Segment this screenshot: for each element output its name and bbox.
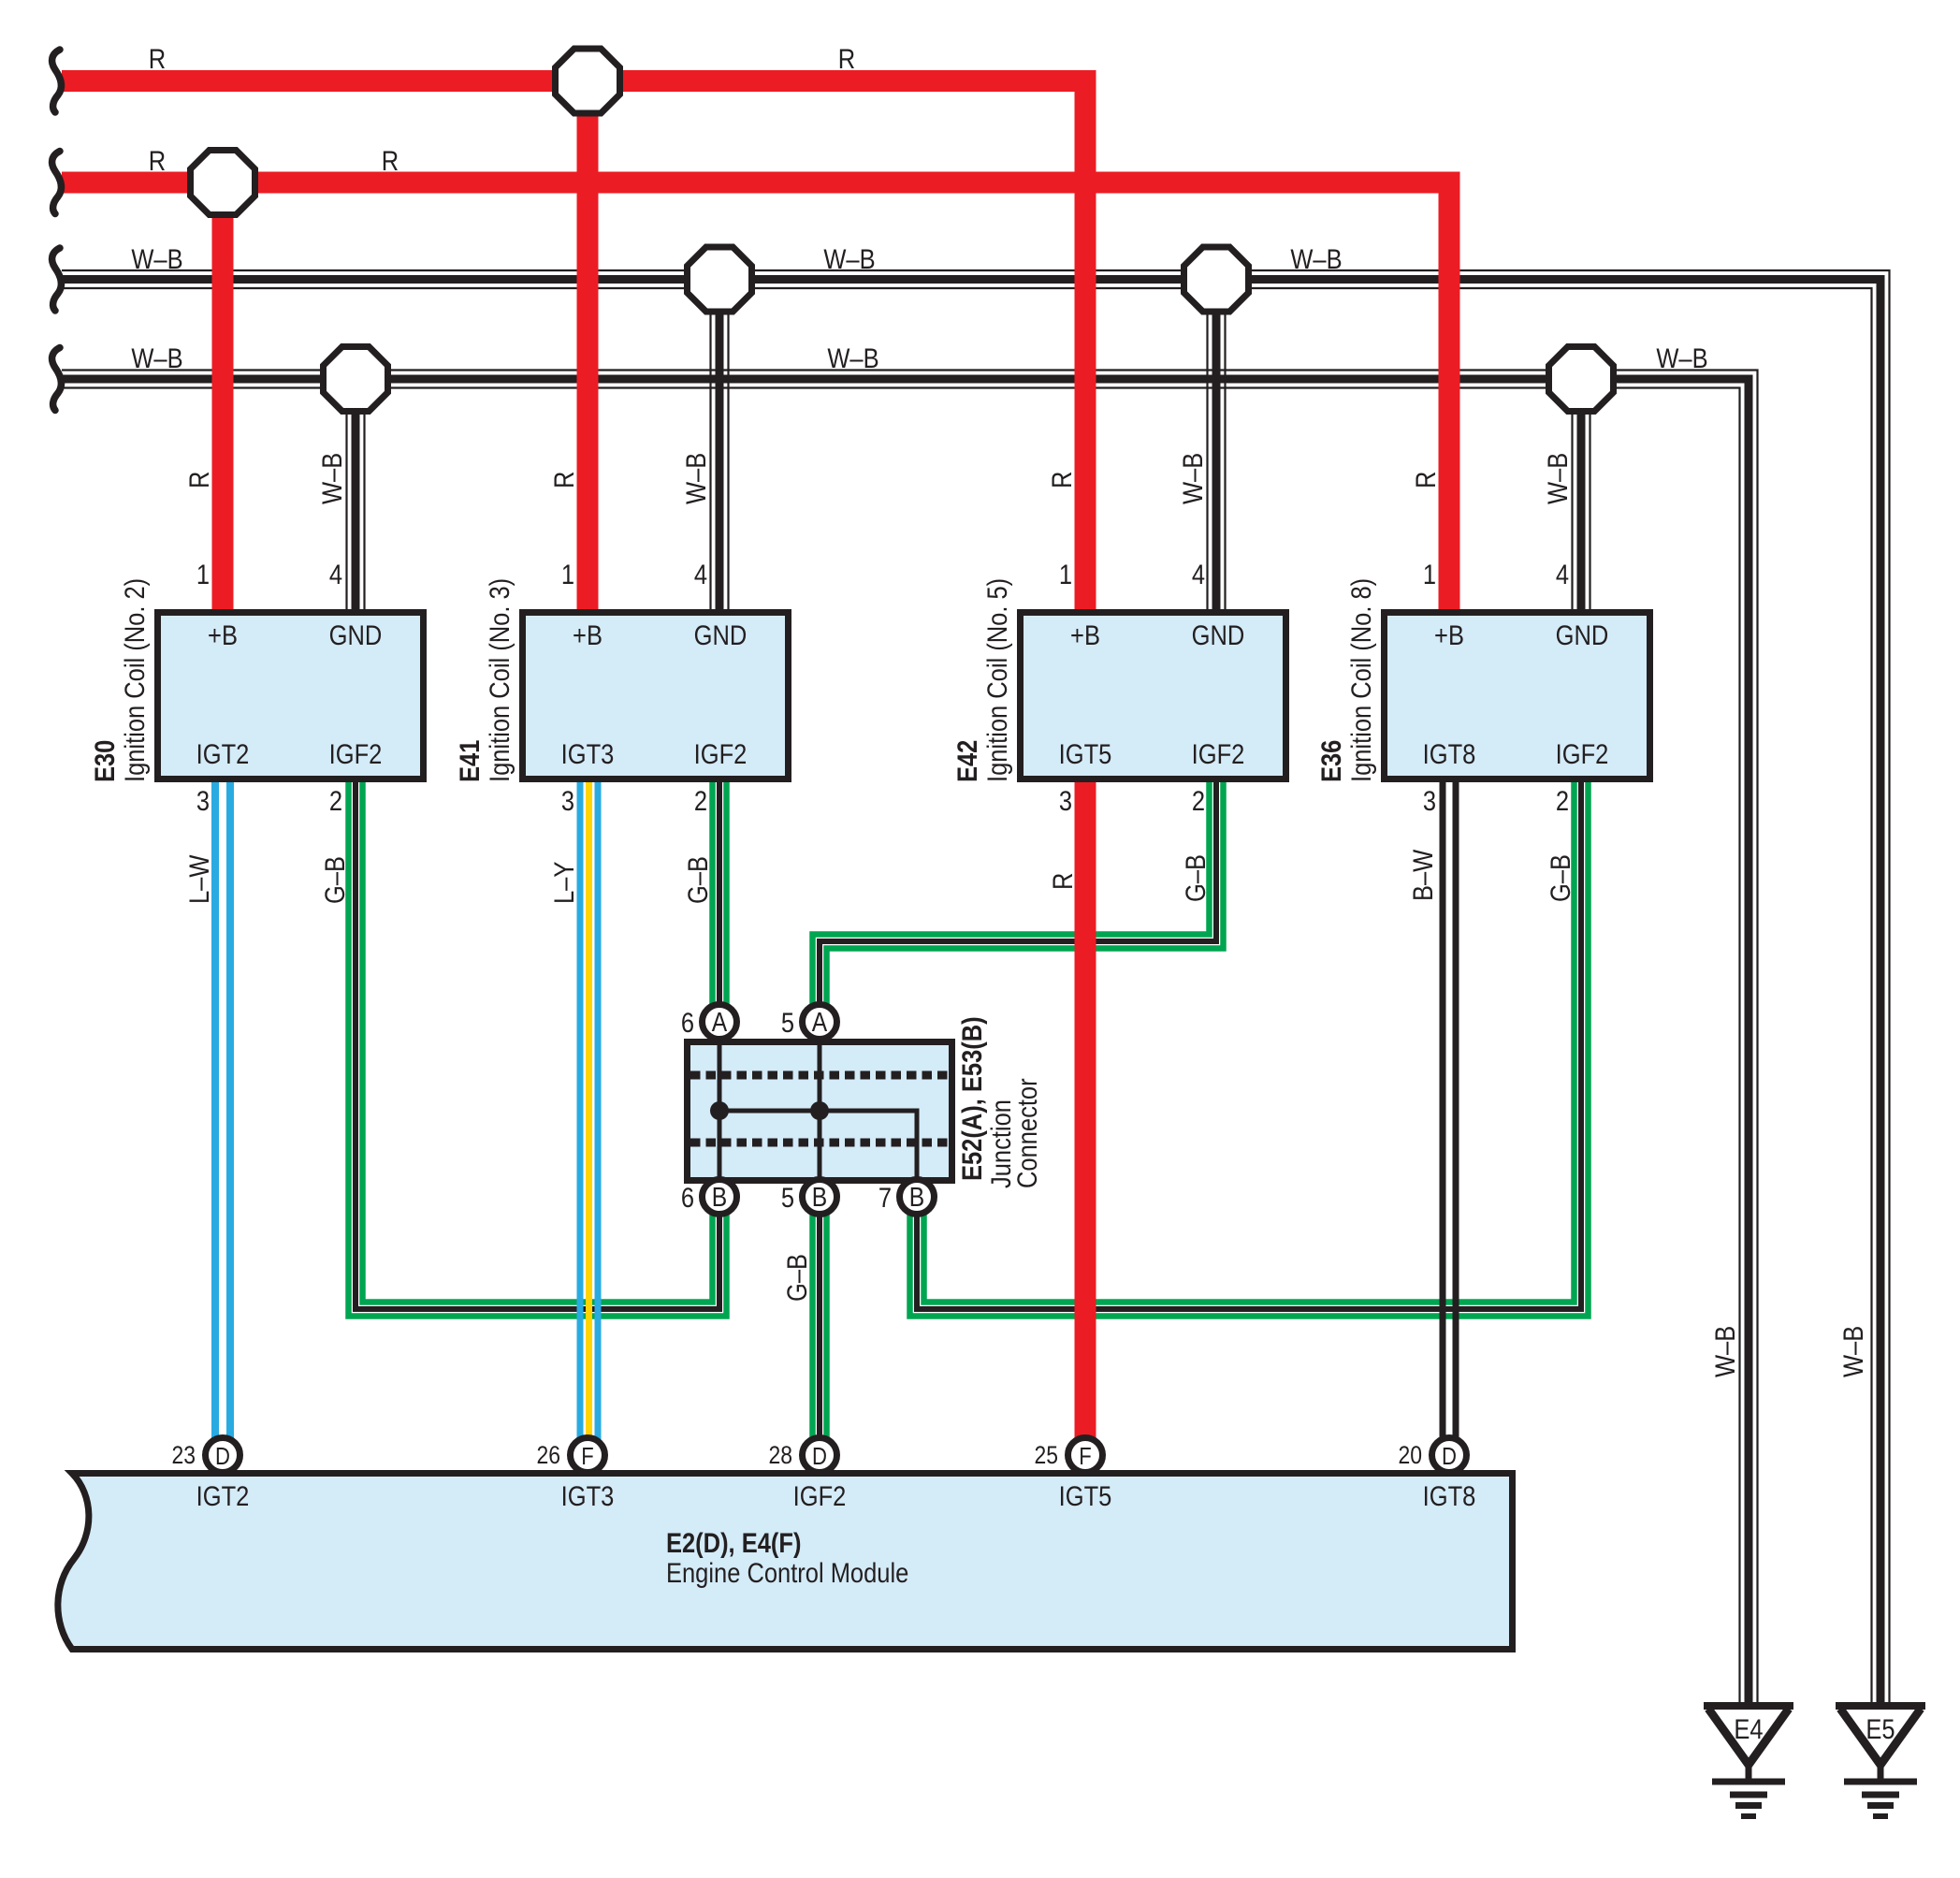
svg-text:R: R (1047, 873, 1078, 890)
svg-text:W–B: W–B (1177, 453, 1208, 504)
svg-text:B: B (812, 1182, 827, 1212)
svg-text:GND: GND (329, 619, 383, 650)
wire W-B rail 2 to E4 (62, 371, 1758, 1706)
svg-text:28: 28 (768, 1441, 792, 1469)
svg-text:R: R (838, 43, 855, 74)
wire W-B branch to E41 GND (711, 280, 729, 614)
junction octagon W-B rail1 at E42 (1184, 247, 1249, 312)
svg-text:R: R (149, 145, 166, 176)
svg-text:6: 6 (681, 1007, 694, 1038)
label R rail1 left (149, 43, 166, 74)
label G-B vertical B5 (781, 1254, 812, 1302)
ignition coil E42 (951, 559, 1285, 816)
svg-text:26: 26 (536, 1441, 560, 1469)
svg-text:D: D (215, 1443, 230, 1470)
svg-text:IGF2: IGF2 (793, 1480, 847, 1511)
svg-text:2: 2 (1556, 785, 1569, 816)
label L-Y vertical (548, 862, 579, 904)
junction octagon R rail1 (556, 49, 620, 113)
svg-text:3: 3 (561, 785, 574, 816)
wire L-W E30 IGT2 to ECM pin 23 (215, 779, 230, 1474)
junction connector E52/E53 box (688, 1039, 952, 1184)
wire B-W E36 IGT8 to ECM pin 20 (1443, 779, 1456, 1474)
svg-text:GND: GND (694, 619, 748, 650)
svg-text:E4: E4 (1734, 1713, 1763, 1744)
svg-text:GND: GND (1192, 619, 1245, 650)
wire G-B E36 IGF2 to junction B7 (910, 779, 1589, 1317)
svg-text:A: A (712, 1007, 727, 1037)
svg-text:W–B: W–B (827, 342, 878, 373)
svg-text:1: 1 (1423, 559, 1436, 590)
ground E5 (1836, 1706, 1925, 1816)
svg-text:+B: +B (1070, 619, 1100, 650)
wire L-Y E41 IGT3 to ECM pin 26 (580, 779, 598, 1474)
junction pin A5 (781, 1005, 837, 1040)
svg-text:W–B: W–B (1837, 1326, 1868, 1377)
svg-text:B–W: B–W (1407, 849, 1438, 901)
svg-text:20: 20 (1398, 1441, 1422, 1469)
svg-text:Ignition Coil (No. 3): Ignition Coil (No. 3) (484, 578, 515, 782)
svg-text:W–B: W–B (316, 453, 347, 504)
svg-text:23: 23 (171, 1441, 196, 1469)
junction pin A6 (681, 1005, 737, 1040)
wire-break symbol rail R2 (52, 152, 62, 214)
svg-text:3: 3 (1423, 785, 1436, 816)
label W-B vertical x754 (680, 453, 711, 504)
ground E4 (1704, 1706, 1793, 1816)
svg-text:2: 2 (329, 785, 342, 816)
ignition coil E36 (1315, 559, 1649, 816)
label W-B rail1 left (131, 243, 182, 274)
junction pin B5 (781, 1180, 837, 1215)
label R vertical IGT5 (1047, 873, 1078, 890)
svg-text:R: R (183, 472, 214, 488)
svg-text:R: R (149, 43, 166, 74)
svg-text:Ignition Coil (No. 2): Ignition Coil (No. 2) (119, 578, 150, 782)
label W-B rail2 left (131, 342, 182, 373)
svg-text:IGT3: IGT3 (561, 738, 615, 769)
svg-text:F: F (1079, 1443, 1091, 1470)
ECM pin 20 D IGT8 (1398, 1438, 1475, 1512)
label R vertical x223 (183, 472, 214, 488)
svg-text:4: 4 (694, 559, 707, 590)
ECM pin 23 D IGT2 (171, 1438, 249, 1512)
svg-text:+B: +B (1434, 619, 1464, 650)
svg-text:R: R (1046, 472, 1077, 488)
wire W-B branch to E30 GND (347, 379, 365, 613)
svg-text:6: 6 (681, 1182, 694, 1213)
svg-text:5: 5 (781, 1182, 794, 1213)
wire W-B rail 1 to E5 (62, 270, 1890, 1705)
svg-text:+B: +B (208, 619, 238, 650)
svg-text:4: 4 (1556, 559, 1569, 590)
svg-text:IGF2: IGF2 (1192, 738, 1245, 769)
label R vertical x613 (548, 472, 579, 488)
wire G-B E41 IGF2 to junction A6 (713, 779, 727, 1022)
wire G-B junction B5 to ECM pin 28 (813, 1197, 827, 1474)
svg-text:Ignition Coil (No. 8): Ignition Coil (No. 8) (1345, 578, 1376, 782)
ECM pin 26 F IGT3 (536, 1438, 614, 1512)
svg-text:E42: E42 (951, 740, 982, 782)
junction pin B7 (878, 1180, 935, 1215)
svg-text:E52(A), E53(B): E52(A), E53(B) (956, 1016, 987, 1181)
svg-text:W–B: W–B (680, 453, 711, 504)
label R rail2 right (382, 145, 399, 176)
svg-text:2: 2 (1192, 785, 1205, 816)
label G-B vertical E41 (682, 856, 713, 904)
svg-text:IGT3: IGT3 (561, 1480, 615, 1511)
ECM title (666, 1527, 908, 1588)
svg-text:G–B: G–B (1545, 854, 1575, 902)
label W-B vertical x1285 (1177, 453, 1208, 504)
svg-text:IGT5: IGT5 (1059, 738, 1112, 769)
wire R rail 2 to E36 +B (62, 182, 1449, 613)
svg-text:R: R (548, 472, 579, 488)
wire G-B E42 IGF2 to junction A5 (813, 779, 1224, 1022)
svg-text:F: F (581, 1443, 593, 1470)
label R rail1 right (838, 43, 855, 74)
svg-text:7: 7 (878, 1182, 892, 1213)
svg-text:3: 3 (1059, 785, 1072, 816)
wire R rail 1 to E42 +B (62, 81, 1085, 614)
engine control module box (58, 1474, 1513, 1650)
svg-text:W–B: W–B (1656, 342, 1707, 373)
label L-W vertical (183, 854, 214, 904)
svg-text:3: 3 (196, 785, 210, 816)
svg-text:2: 2 (694, 785, 707, 816)
svg-text:IGF2: IGF2 (694, 738, 748, 769)
svg-text:E41: E41 (454, 740, 485, 782)
wire-break symbol rail W-B1 (52, 248, 62, 311)
ECM pin 28 D IGF2 (768, 1438, 846, 1512)
svg-text:E2(D), E4(F): E2(D), E4(F) (666, 1527, 801, 1558)
svg-text:IGT5: IGT5 (1059, 1480, 1112, 1511)
svg-text:IGT8: IGT8 (1423, 1480, 1476, 1511)
label W-B vertical x1675 (1542, 453, 1573, 504)
junction octagon W-B rail2 at E30 (324, 347, 388, 412)
svg-text:E30: E30 (89, 740, 120, 782)
wire R branch to E41 +B (577, 81, 599, 614)
wire R E42 IGT5 to ECM pin 25 (1075, 779, 1096, 1474)
label B-W vertical (1407, 849, 1438, 901)
svg-text:1: 1 (196, 559, 210, 590)
svg-text:Engine Control Module: Engine Control Module (666, 1557, 908, 1588)
svg-text:G–B: G–B (319, 856, 350, 904)
wire W-B branch to E36 GND (1573, 379, 1590, 613)
junction connector labels (956, 1016, 1042, 1188)
ignition coil E41 (454, 559, 788, 816)
svg-text:B: B (712, 1182, 727, 1212)
svg-text:4: 4 (329, 559, 342, 590)
svg-text:L–Y: L–Y (548, 862, 579, 904)
wire-break symbol rail W-B2 (52, 348, 62, 411)
svg-text:IGF2: IGF2 (1556, 738, 1609, 769)
label W-B rail1 mid (823, 243, 875, 274)
label W-B vertical x365 (316, 453, 347, 504)
svg-text:G–B: G–B (1180, 854, 1211, 902)
svg-text:W–B: W–B (1290, 243, 1342, 274)
svg-text:A: A (812, 1007, 827, 1037)
wire G-B E30 IGF2 to junction B6 (349, 779, 727, 1317)
svg-text:IGF2: IGF2 (329, 738, 383, 769)
svg-text:IGT2: IGT2 (196, 738, 250, 769)
svg-text:G–B: G–B (682, 856, 713, 904)
wire R branch to E30 +B (212, 182, 234, 613)
svg-text:L–W: L–W (183, 854, 214, 904)
wire-break symbol rail R1 (52, 50, 62, 112)
label G-B vertical E36 (1545, 854, 1575, 902)
label R rail2 left (149, 145, 166, 176)
svg-text:Ignition Coil (No. 5): Ignition Coil (No. 5) (981, 578, 1012, 782)
svg-text:GND: GND (1556, 619, 1609, 650)
wire W-B branch to E42 GND (1208, 280, 1226, 614)
svg-text:5: 5 (781, 1007, 794, 1038)
svg-text:Connector: Connector (1011, 1078, 1042, 1188)
label W-B vertical E5 (1837, 1326, 1868, 1377)
svg-text:W–B: W–B (1709, 1326, 1740, 1377)
svg-text:R: R (382, 145, 399, 176)
svg-text:1: 1 (1059, 559, 1072, 590)
svg-text:W–B: W–B (823, 243, 875, 274)
svg-text:D: D (1442, 1443, 1457, 1470)
label R vertical x1145 (1046, 472, 1077, 488)
svg-text:W–B: W–B (1542, 453, 1573, 504)
svg-text:4: 4 (1192, 559, 1205, 590)
svg-text:G–B: G–B (781, 1254, 812, 1302)
label W-B rail2 mid (827, 342, 878, 373)
label G-B vertical E42 (1180, 854, 1211, 902)
junction octagon W-B rail2 at E36 (1549, 347, 1614, 412)
svg-text:25: 25 (1034, 1441, 1058, 1469)
ignition coil E30 (89, 559, 423, 816)
svg-text:B: B (909, 1182, 924, 1212)
svg-text:R: R (1410, 472, 1441, 488)
label W-B rail2 right (1656, 342, 1707, 373)
svg-text:IGT2: IGT2 (196, 1480, 250, 1511)
svg-text:+B: +B (573, 619, 603, 650)
svg-text:W–B: W–B (131, 243, 182, 274)
label G-B vertical E30 (319, 856, 350, 904)
label W-B vertical E4 (1709, 1326, 1740, 1377)
svg-text:1: 1 (561, 559, 574, 590)
svg-text:D: D (812, 1443, 827, 1470)
svg-text:E5: E5 (1866, 1713, 1895, 1744)
svg-text:W–B: W–B (131, 342, 182, 373)
junction pin B6 (681, 1180, 737, 1215)
label W-B rail1 right (1290, 243, 1342, 274)
svg-text:IGT8: IGT8 (1423, 738, 1476, 769)
junction octagon R rail2 (191, 151, 255, 215)
label R vertical x1534 (1410, 472, 1441, 488)
junction octagon W-B rail1 at E41 (688, 247, 752, 312)
ECM pin 25 F IGT5 (1034, 1438, 1111, 1512)
svg-text:E36: E36 (1315, 740, 1346, 782)
